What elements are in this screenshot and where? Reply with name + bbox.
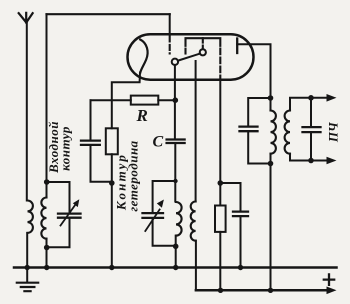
node cathode bus junction [109, 265, 114, 270]
capacitor C3 heterodyne coupling [167, 140, 185, 202]
wire antenna coil to bus [26, 233, 28, 268]
capacitor C2 grid coupling (left) [81, 100, 112, 181]
wire R right lead [158, 99, 175, 101]
capacitor C5 screen bypass [220, 183, 248, 268]
node anode line plus junction [268, 288, 273, 293]
node IF primary top junction [268, 95, 274, 101]
node cathode network junction [109, 180, 115, 186]
label plus terminal [324, 274, 334, 284]
wire feedback coil to plus wire [195, 241, 197, 291]
wire cathode resistor to bus [111, 154, 113, 267]
wire plus supply arrow [327, 287, 337, 295]
wire screen resistor to plus wire [219, 232, 221, 290]
wire heterodyne coil to bus [175, 236, 177, 268]
resistor R2 cathode bias [106, 128, 118, 154]
wire IF secondary bottom [290, 154, 311, 161]
wire ground bus [14, 266, 337, 269]
node IF output bottom junction [308, 158, 314, 164]
node screen junction [218, 180, 224, 186]
wire anode lead [237, 44, 270, 98]
node input tank top junction [44, 179, 50, 185]
wire anode line to plus wire [270, 164, 272, 291]
wire IF primary line [270, 98, 272, 164]
inductor L2 input tank coil [41, 198, 46, 239]
node grid leak junction [173, 97, 179, 103]
inductor L6 IF transformer secondary [285, 111, 290, 154]
wire input tank vertical (frame left leg) [46, 14, 48, 197]
tube grid connector diagonal [178, 54, 200, 61]
resistor R3 screen dropping [215, 206, 226, 232]
svg-text:ПЧ: ПЧ [326, 121, 341, 143]
tube V1 envelope [128, 34, 254, 79]
svg-text:контур: контур [58, 126, 73, 171]
inductor L5 IF transformer primary [271, 111, 276, 154]
node bypass bus junction [238, 265, 243, 270]
capacitor C1 input variable [47, 182, 81, 247]
wire screen lead [219, 80, 221, 206]
tube grid 2 dash [184, 49, 186, 54]
inductor L3 heterodyne tank coil [176, 202, 182, 236]
node antenna-bus junction [25, 265, 30, 270]
inductor L1 antenna coupling coil [28, 201, 33, 233]
wire IF secondary top [290, 98, 311, 111]
node heterodyne tank top junction [173, 179, 177, 183]
wire heterodyne anode lead [195, 61, 197, 202]
ground [17, 268, 38, 292]
capacitor C6 IF primary tuning [240, 98, 271, 164]
node heterodyne bus junction [173, 265, 178, 270]
tube grid 4 dashed [219, 49, 221, 80]
node input tank bus junction [44, 265, 49, 270]
tube grid 1 dashed [169, 37, 171, 54]
node IF primary bottom junction [268, 161, 274, 167]
inductor L4 feedback coil [191, 202, 196, 241]
node IF output top junction [308, 95, 314, 101]
svg-text:гетеродина: гетеродина [126, 140, 141, 211]
capacitor C4 heterodyne variable [143, 181, 176, 246]
resistor R1 grid leak [131, 96, 159, 105]
wire input coil to bus [46, 239, 48, 268]
tube cathode [140, 40, 147, 73]
capacitor C7 IF secondary tuning [303, 98, 321, 161]
wire grid leak top wire [91, 99, 131, 101]
wire cathode lead [112, 73, 140, 129]
tube grid connector circle lower [172, 59, 178, 65]
tube anode bar [236, 39, 238, 54]
node input tank bottom junction [44, 245, 50, 251]
wire heterodyne grid lead [174, 65, 176, 139]
antenna [19, 13, 33, 23]
tube grid 1 top lead [169, 14, 171, 34]
wire IF output bottom arrow [311, 160, 328, 162]
svg-text:R: R [136, 106, 148, 125]
tube grid connector circle upper [200, 49, 206, 55]
node screen resistor plus junction [218, 288, 223, 293]
svg-text:C: C [153, 134, 164, 151]
wire antenna down lead [26, 22, 28, 201]
node heterodyne bottom junction [173, 244, 179, 250]
wire IF output top arrow [311, 97, 328, 99]
wire top frame horizontal [47, 13, 170, 15]
tube screen bracket [186, 38, 221, 46]
tube grid 3 dashed [202, 38, 204, 49]
